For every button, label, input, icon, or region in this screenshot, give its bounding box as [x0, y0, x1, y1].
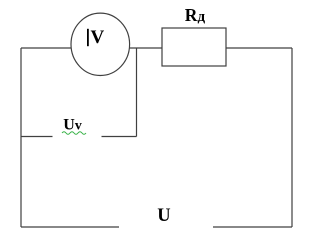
wire right vertical	[291, 48, 293, 227]
wire inner left stub	[21, 136, 53, 138]
spell-check squiggle under Uv	[62, 132, 86, 135]
svg-text:Rд: Rд	[185, 5, 206, 25]
wire left vertical	[20, 48, 22, 227]
resistor Rд (box)	[162, 28, 226, 66]
voltmeter U1 (circle)	[71, 13, 130, 75]
wire between voltmeter and resistor	[130, 47, 162, 49]
svg-text:V: V	[91, 27, 105, 48]
wire top-left segment	[21, 47, 71, 49]
wire inner vertical from top node down	[136, 48, 138, 137]
text cursor caret inside voltmeter	[87, 29, 89, 46]
wire bottom-right segment	[213, 226, 292, 228]
wire top-right segment	[226, 47, 292, 49]
wire bottom-left segment	[21, 226, 119, 228]
svg-text:U: U	[157, 206, 170, 226]
svg-text:Uv: Uv	[63, 117, 82, 134]
wire inner right stub	[102, 136, 137, 138]
